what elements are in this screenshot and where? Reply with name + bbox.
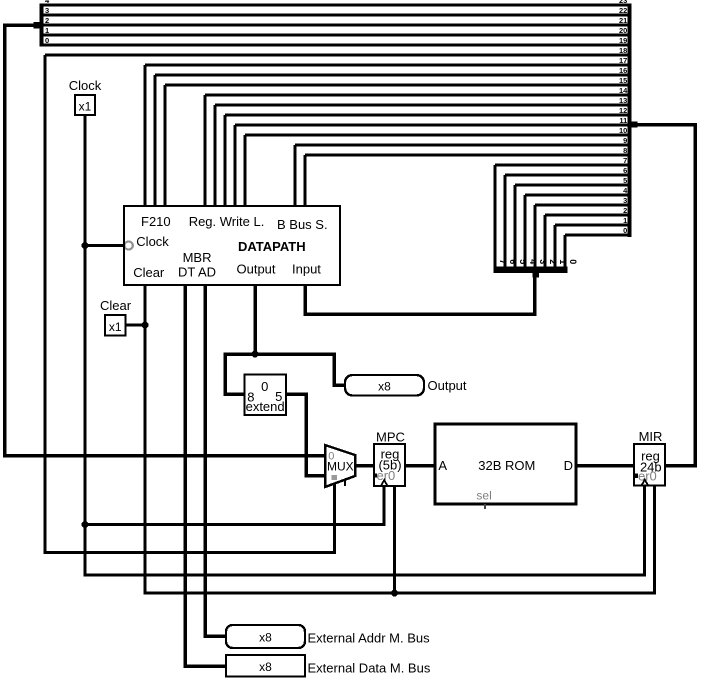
svg-text:7: 7	[623, 156, 627, 165]
svg-text:0: 0	[568, 259, 578, 264]
svg-text:Input: Input	[292, 261, 321, 276]
svg-text:DATAPATH: DATAPATH	[238, 239, 306, 254]
svg-text:sel: sel	[476, 489, 491, 503]
svg-text:5: 5	[623, 176, 627, 185]
svg-text:2: 2	[548, 259, 558, 264]
svg-text:23: 23	[619, 0, 627, 5]
svg-text:Clear: Clear	[133, 265, 165, 280]
svg-text:9: 9	[623, 136, 627, 145]
svg-text:Output: Output	[428, 378, 467, 393]
svg-text:1: 1	[623, 216, 627, 225]
svg-text:3: 3	[45, 6, 49, 15]
svg-text:x1: x1	[109, 320, 122, 334]
svg-text:12: 12	[619, 106, 627, 115]
svg-text:0: 0	[623, 226, 627, 235]
svg-text:13: 13	[619, 96, 627, 105]
svg-text:B Bus S.: B Bus S.	[277, 217, 328, 232]
svg-text:x8: x8	[259, 660, 272, 674]
svg-text:32B ROM: 32B ROM	[478, 458, 535, 473]
svg-text:Reg. Write L.: Reg. Write L.	[189, 214, 265, 229]
svg-text:3: 3	[623, 196, 627, 205]
svg-text:Clear: Clear	[100, 298, 132, 313]
svg-text:er0: er0	[377, 468, 396, 483]
svg-text:1: 1	[45, 26, 49, 35]
svg-text:MUX: MUX	[327, 460, 354, 474]
svg-text:Clock: Clock	[136, 234, 169, 249]
svg-text:0: 0	[261, 379, 268, 394]
svg-text:20: 20	[619, 26, 627, 35]
svg-text:MIR: MIR	[639, 429, 663, 444]
svg-text:F210: F210	[141, 214, 171, 229]
svg-text:er0: er0	[638, 468, 657, 483]
svg-text:Output: Output	[237, 261, 276, 276]
svg-text:8: 8	[623, 146, 627, 155]
svg-text:11: 11	[619, 116, 627, 125]
svg-text:0: 0	[45, 36, 49, 45]
svg-text:2: 2	[623, 206, 627, 215]
svg-text:21: 21	[619, 16, 627, 25]
svg-text:External Addr M. Bus: External Addr M. Bus	[308, 631, 431, 646]
svg-text:14: 14	[619, 86, 628, 95]
svg-text:17: 17	[619, 56, 627, 65]
svg-text:External Data M. Bus: External Data M. Bus	[308, 661, 431, 676]
svg-text:7: 7	[498, 259, 508, 264]
svg-text:x8: x8	[259, 631, 272, 645]
svg-text:3: 3	[538, 259, 548, 264]
svg-text:MBR: MBR	[183, 250, 212, 265]
svg-text:extend: extend	[246, 399, 285, 414]
svg-text:x8: x8	[378, 380, 391, 394]
svg-text:D: D	[564, 458, 573, 473]
svg-text:1: 1	[558, 259, 568, 264]
svg-text:MPC: MPC	[376, 430, 405, 445]
svg-text:18: 18	[619, 46, 627, 55]
svg-text:15: 15	[619, 76, 627, 85]
svg-text:x1: x1	[79, 100, 92, 114]
svg-text:A: A	[438, 458, 447, 473]
svg-text:2: 2	[45, 16, 49, 25]
svg-text:22: 22	[619, 6, 627, 15]
svg-text:DT AD: DT AD	[178, 265, 216, 280]
svg-text:16: 16	[619, 66, 627, 75]
svg-text:19: 19	[619, 36, 627, 45]
svg-text:6: 6	[508, 259, 518, 264]
svg-text:10: 10	[619, 126, 627, 135]
svg-text:4: 4	[528, 259, 538, 264]
svg-text:6: 6	[623, 166, 627, 175]
svg-text:Clock: Clock	[69, 78, 102, 93]
svg-text:5: 5	[518, 259, 528, 264]
